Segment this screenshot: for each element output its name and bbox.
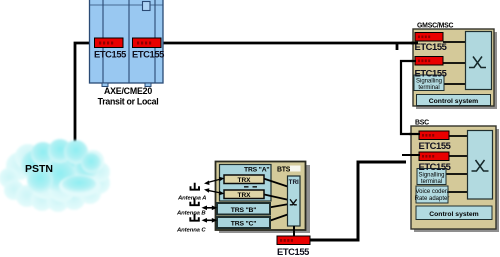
TRS B box <box>217 203 270 215</box>
antenna A link to TRX1 <box>208 179 222 183</box>
svg-text:TRI: TRI <box>289 179 299 186</box>
antenna A symbol <box>190 183 200 190</box>
svg-text:Antenna B: Antenna B <box>176 210 206 216</box>
wire AXE to PSTN <box>75 43 94 143</box>
wire TRX1 to TRI <box>262 178 289 187</box>
antenna B symbol <box>189 198 199 205</box>
ETC155 red unit 2 <box>133 38 162 48</box>
antenna C link to TRS C <box>205 219 214 221</box>
svg-text:Rate adapter: Rate adapter <box>415 196 450 202</box>
GMSC internal link 2 <box>443 62 466 64</box>
BSC control system box <box>416 206 492 220</box>
cabinet divider 1 <box>102 0 104 83</box>
BSC shadow <box>414 129 499 232</box>
svg-text:AXE/CME20: AXE/CME20 <box>104 86 152 96</box>
inner cloud puff <box>59 175 101 197</box>
antenna B link to TRS B <box>205 207 214 209</box>
cabinet body <box>90 0 164 83</box>
GMSC internal link 3 <box>444 83 466 85</box>
BSC ETC155 unit 1 <box>419 131 449 140</box>
svg-text:PSTN: PSTN <box>25 163 53 175</box>
BTS switch symbol <box>290 199 297 205</box>
svg-text:Signalling: Signalling <box>418 173 444 179</box>
wire TRX2 to switch <box>262 194 289 200</box>
GMSC internal link 1 <box>443 41 466 43</box>
svg-text:terminal: terminal <box>418 85 439 91</box>
svg-text:TRX: TRX <box>238 192 252 199</box>
svg-text:TRS "C": TRS "C" <box>231 220 256 227</box>
svg-text:ETC155: ETC155 <box>419 140 451 151</box>
TRX box 1 <box>224 175 264 184</box>
wire overlay into BSC ETC155-1 <box>409 133 420 135</box>
antenna C symbol <box>189 214 199 221</box>
BSC signalling terminal box <box>417 169 446 185</box>
wire AXE to GMSC ETC155 <box>160 42 419 45</box>
BTS node <box>216 162 311 237</box>
wire overlay into GMSC ETC155-1 <box>411 42 418 45</box>
GMSC group switch box <box>466 32 492 90</box>
BSC node <box>411 120 499 233</box>
svg-text:BTS: BTS <box>277 166 291 173</box>
svg-text:TRX: TRX <box>238 177 252 184</box>
small square detail <box>143 2 151 11</box>
ellipsis dashes <box>244 186 249 187</box>
svg-text:Control system: Control system <box>429 98 478 105</box>
cabinet foot left <box>102 83 108 87</box>
svg-text:Signalling: Signalling <box>416 79 442 85</box>
wire GMSC ETC155-2 down to BSC ETC155-1 <box>401 61 419 134</box>
wire BTS ETC155 to BSC <box>309 162 406 240</box>
svg-text:Voice coder/: Voice coder/ <box>415 189 448 195</box>
AXE/CME20 cabinet <box>90 0 165 107</box>
wire TRS B to switch <box>269 204 289 208</box>
wire TRS C to switch <box>269 214 289 221</box>
TRS A group box <box>220 165 272 202</box>
svg-text:TRS "A": TRS "A" <box>244 166 269 173</box>
wire overlay into GMSC ETC155-2 <box>411 60 416 62</box>
GMSC box <box>413 29 494 106</box>
BTS ETC155 unit <box>277 236 310 257</box>
svg-text:Control system: Control system <box>429 211 478 218</box>
BSC internal link 2 <box>449 155 468 157</box>
cabinet divider 2 <box>128 0 130 83</box>
GMSC signalling terminal box <box>414 75 444 91</box>
svg-text:Antenna A: Antenna A <box>177 196 206 202</box>
svg-text:ETC155: ETC155 <box>277 246 309 257</box>
BSC switch symbol <box>472 160 489 171</box>
BSC internal link 4 <box>448 191 468 193</box>
BSC box <box>411 126 496 229</box>
BSC group switch box <box>468 131 493 200</box>
GMSC switch symbol <box>469 57 486 68</box>
BTS box <box>216 162 306 231</box>
ETC155 red unit 1 <box>95 38 124 48</box>
BSC ETC155 unit 2 <box>419 152 449 161</box>
svg-text:Antenna C: Antenna C <box>176 227 206 233</box>
BSC internal link 3 <box>446 173 468 175</box>
BSC internal link 1 <box>449 135 468 137</box>
BTS blank tag <box>290 166 301 172</box>
TRI box <box>288 176 301 226</box>
svg-text:ETC155: ETC155 <box>94 49 126 60</box>
wire TRI to BTS ETC155 <box>293 226 295 236</box>
wire overlay into BSC ETC155-2 <box>409 154 420 156</box>
svg-text:ETC155: ETC155 <box>415 68 447 79</box>
cabinet foot right <box>145 83 151 87</box>
GMSC control system box <box>417 95 491 106</box>
TRS C box <box>217 217 270 228</box>
GMSC ETC155 unit 2 <box>415 57 443 66</box>
svg-text:TRS "B": TRS "B" <box>231 207 256 214</box>
TRX box 2 <box>224 190 264 199</box>
antenna A link to TRX2 <box>208 190 222 193</box>
GMSC shadow <box>416 32 497 109</box>
GMSC ETC155 unit 1 <box>415 33 443 42</box>
GMSC/MSC node <box>413 23 497 110</box>
svg-text:ETC155: ETC155 <box>415 41 447 52</box>
cabinet top rim <box>90 4 164 6</box>
wire stub into BSC ETC155-2 <box>402 154 420 156</box>
BTS shadow <box>219 165 310 233</box>
svg-text:terminal: terminal <box>421 179 442 185</box>
svg-text:ETC155: ETC155 <box>419 161 451 172</box>
junction stub on GMSC wire <box>396 43 399 50</box>
svg-text:ETC155: ETC155 <box>132 49 164 60</box>
svg-text:Transit or Local: Transit or Local <box>98 97 159 107</box>
cabinet divider 3 <box>154 0 156 83</box>
BSC voice coder box <box>416 186 448 203</box>
